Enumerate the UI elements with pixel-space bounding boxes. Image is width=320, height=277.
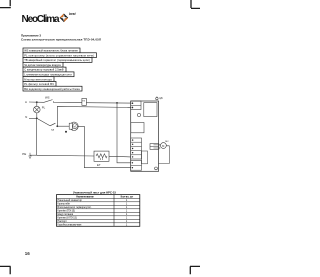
svg-text:PL фильтр сетевой ВЧ: PL фильтр сетевой ВЧ bbox=[24, 82, 54, 86]
svg-text:ВН индикатор конвекционной раб: ВН индикатор конвекционной работы блока bbox=[24, 87, 80, 91]
dot near motor bbox=[65, 131, 67, 133]
wire PE to rail bbox=[30, 154, 37, 156]
wire A line bbox=[29, 101, 44, 103]
legend row WS bbox=[23, 48, 80, 53]
svg-text:PE: PE bbox=[22, 152, 26, 156]
junction at x117 bbox=[116, 102, 118, 104]
screw hole bottom bbox=[155, 167, 158, 170]
N rail down bbox=[36, 118, 38, 155]
junction switch output bbox=[56, 125, 58, 127]
packing table bbox=[57, 195, 140, 227]
svg-text:ЕТ: ЕТ bbox=[97, 163, 101, 167]
legend row BH indicator bbox=[23, 86, 82, 91]
svg-text:L клеммная колодка токоведущая: L клеммная колодка токоведущая сети bbox=[24, 73, 72, 77]
svg-text:МС: МС bbox=[165, 141, 169, 143]
junction N-lamp bbox=[36, 117, 38, 119]
svg-text:PL: PL bbox=[42, 105, 46, 109]
switch WS bbox=[44, 100, 53, 103]
input terminal block bbox=[131, 101, 141, 110]
diagonal wire to switch bbox=[37, 118, 50, 126]
board marker CB bbox=[156, 97, 158, 99]
strip side extension box bbox=[142, 151, 148, 164]
wires to right motor with arrows bbox=[154, 145, 161, 148]
mid-left sub-box bbox=[131, 123, 144, 133]
heater ET box bbox=[94, 151, 109, 161]
lamp PL bbox=[34, 102, 46, 118]
svg-text:Кол-во, шт: Кол-во, шт bbox=[121, 196, 134, 199]
thermostat TB box bbox=[82, 98, 87, 105]
top-right inner box bbox=[144, 103, 157, 117]
svg-text:NeoClima: NeoClima bbox=[22, 14, 60, 25]
svg-text:Упаковочный лист для НРС-15: Упаковочный лист для НРС-15 bbox=[73, 190, 116, 194]
svg-text:N: N bbox=[25, 115, 27, 119]
svg-text:SL датчик температуры воздуха: SL датчик температуры воздуха bbox=[24, 63, 61, 67]
pin strip connector 2 bbox=[131, 160, 142, 170]
corner mark top-left bbox=[0, 0, 11, 8]
corner mark bottom-left bbox=[0, 266, 11, 274]
right-mid terminal block bbox=[150, 144, 159, 150]
right motor MC bbox=[161, 141, 170, 149]
wire down from 117 bbox=[117, 103, 131, 163]
legend row L terminal bbox=[23, 72, 74, 77]
wire N line bbox=[29, 117, 37, 119]
svg-text:SA: SA bbox=[51, 128, 54, 131]
junction A-lamp bbox=[36, 101, 38, 103]
legend row PL filter bbox=[23, 81, 56, 86]
svg-text:ЦБ: ЦБ bbox=[159, 98, 163, 100]
corner mark top-right bbox=[191, 0, 200, 8]
svg-text:С конденсатор пусковой 2,5мкФ: С конденсатор пусковой 2,5мкФ bbox=[24, 68, 64, 72]
wire right motor loop bbox=[158, 146, 169, 164]
switch SA blade bbox=[50, 123, 55, 126]
svg-text:A: A bbox=[25, 100, 27, 104]
svg-text:WS клавишный выключатель блока: WS клавишный выключатель блока питания bbox=[24, 49, 78, 53]
wire to fan motor bbox=[57, 125, 69, 127]
svg-text:М мотор вентилятора: М мотор вентилятора bbox=[24, 77, 52, 81]
ground symbol bbox=[28, 153, 31, 159]
fan motor M bbox=[69, 122, 78, 130]
logo diamond icon bbox=[60, 14, 69, 23]
wire motor to box bottom bbox=[78, 126, 131, 167]
legend row M fan bbox=[23, 77, 54, 82]
svg-text:Схема электрическая принципиал: Схема электрическая принципиальная ТПЭ-0… bbox=[21, 37, 101, 41]
controller PL big box bbox=[131, 101, 159, 171]
wire rail to heater bbox=[37, 154, 94, 157]
corner mark bottom-right bbox=[190, 266, 200, 274]
svg-text:ТВ аварийный термостат (термор: ТВ аварийный термостат (терморазмыкатель… bbox=[24, 58, 90, 62]
legend row PL controller bbox=[23, 53, 96, 58]
legend row SL sensor bbox=[23, 62, 63, 67]
resistor ET zigzag bbox=[96, 154, 107, 158]
legend row C capacitor bbox=[23, 67, 66, 72]
svg-text:best: best bbox=[69, 12, 76, 16]
svg-text:PL контроллер (плата управлени: PL контроллер (плата управления нагревом… bbox=[24, 53, 94, 57]
svg-text:WS: WS bbox=[45, 95, 50, 99]
wire heater to pin strip bbox=[109, 155, 131, 158]
wire A to box bbox=[54, 101, 131, 103]
pin strip connector 1 bbox=[131, 138, 142, 159]
legend row TB thermostat bbox=[23, 58, 92, 63]
svg-text:Коробка упаковочная: Коробка упаковочная bbox=[58, 224, 82, 227]
svg-text:16: 16 bbox=[25, 251, 31, 256]
wire2 vertical and horizontal to box bbox=[57, 106, 130, 126]
screw hole top bbox=[137, 113, 140, 116]
